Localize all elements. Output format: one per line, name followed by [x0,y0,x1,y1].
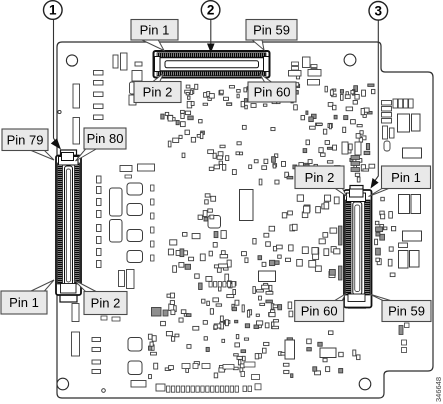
arrowhead 3 [371,178,379,189]
callout leader 3 [374,21,378,183]
connector pads right middle [399,195,422,269]
component cluster upper-left of center [167,89,194,147]
rect chip bottom-right-center [320,348,336,358]
fiducial dot left [58,110,61,113]
component cluster center mid-left [168,231,228,273]
connector 2 (top, Pins 1/2/59/60) [154,51,270,78]
callout leader 1 [54,20,57,144]
component group top-left [113,53,142,70]
fiducial dot bottom [102,389,106,393]
label Pin 2 (top connector left bottom) [134,74,181,103]
component cluster center fill left [198,194,216,221]
svg-text:Pin 59: Pin 59 [253,22,290,37]
label Pin 2 (right connector top-left) [295,166,347,197]
parts below top connector [227,64,238,72]
parts above cluster [289,57,322,85]
tall component left column [73,84,80,144]
dark bars left of right connector [339,226,343,280]
resistor ladder left column [94,71,104,120]
PCB board outline [57,42,433,398]
component cluster center upper sparse fill [208,125,286,166]
component cluster center lower [189,251,232,289]
label Pin 60 (right connector bottom-left) [295,294,346,322]
tiny pin column beside octagons [151,185,155,261]
label Pin 59 (top connector right) [246,20,297,51]
dark chip bottom-left-center [152,308,169,317]
parts above left column [120,164,155,178]
bead row upper [209,282,235,288]
ladder bars in top-right extension [382,101,395,152]
connector 1 (left, Pins 1/2/79/80) [56,150,81,302]
svg-text:Pin 2: Pin 2 [91,296,121,311]
callout circle 2 [201,1,220,20]
svg-text:Pin 1: Pin 1 [391,170,421,185]
chip U left column 1 [110,188,123,216]
small ICs near top connector left [129,71,143,106]
svg-text:1: 1 [49,3,57,18]
vertical chip bottom-right-center [285,340,295,359]
label Pin 2 (left connector bottom-right) [74,280,127,315]
svg-text:Pin 1: Pin 1 [9,295,39,310]
rect center lower [259,271,276,282]
svg-text:Pin 59: Pin 59 [388,304,425,319]
arrowhead 1 [51,138,61,149]
chip center small [208,216,221,229]
label Pin 59 (right connector bottom-right) [370,294,432,322]
small parts below Pin 2 label left [101,316,120,321]
mounting hole top-left [66,55,77,66]
svg-text:Pin 2: Pin 2 [143,85,173,100]
component cluster right-of-center [297,195,340,278]
component cluster bottom dense [202,281,293,330]
connector pads top-right extension [398,114,422,158]
component cluster below top connector [186,83,299,110]
component cluster bottom center-left [161,293,200,372]
bead row bottom [156,362,261,392]
svg-text:Pin 79: Pin 79 [7,132,44,147]
IC chip center tall [240,190,254,221]
pads bottom-left [128,338,146,388]
tall cap bottom-left [72,332,80,356]
component cluster center fill right [242,226,291,266]
small IC row top-right extension [393,99,413,108]
mounting hole top-right [344,54,356,66]
component cluster right near board edge [340,84,375,182]
svg-text:3: 3 [375,4,383,19]
label Pin 1 (right connector top-right) [369,166,431,197]
component cluster center upper-left [161,112,205,157]
label Pin 79 (left connector top-left) [2,129,54,160]
svg-text:Pin 1: Pin 1 [140,22,170,37]
capacitors pair near right edge [342,142,361,172]
component cluster right of connector 3 [375,197,396,276]
label Pin 1 (left connector bottom-left) [1,280,54,314]
component cluster bottom right-of-center [307,331,360,375]
svg-text:Pin 2: Pin 2 [305,170,335,185]
pad column octagons [127,183,143,263]
label Pin 60 (top connector right bottom) [248,74,296,103]
component cluster upper-right speckle [296,74,340,169]
component cluster bottom dense lower [204,335,293,378]
chip U left column 2 [110,220,123,243]
callout circle 1 [44,1,63,20]
parts below Pin 59 label [399,323,409,353]
component cluster center mid-right [258,211,297,266]
label Pin 1 (top connector left, pin 1) [131,20,178,51]
discrete column x97 [97,176,102,268]
svg-text:Pin 80: Pin 80 [87,131,124,146]
label Pin 80 (left connector top-right) [76,128,127,161]
svg-text:Pin 60: Pin 60 [301,304,338,319]
mounting hole bottom-left [57,378,69,390]
capacitor below left connector [72,304,79,322]
connector 3 (right, Pins 1/2/59/60) [344,186,372,309]
mounting hole bottom-right [359,378,371,390]
callout circle 3 [369,2,388,21]
component cluster bottom-left column [148,334,157,378]
component cluster center upper [209,152,296,185]
arrowhead 2 [207,44,215,54]
resistor ladder bottom-left [92,338,101,374]
svg-text:Pin 60: Pin 60 [254,85,291,100]
capacitor pair bottom of left column [119,270,135,289]
svg-text:346648: 346648 [434,377,443,402]
callout leader 2 [210,20,212,44]
svg-text:2: 2 [207,3,215,18]
